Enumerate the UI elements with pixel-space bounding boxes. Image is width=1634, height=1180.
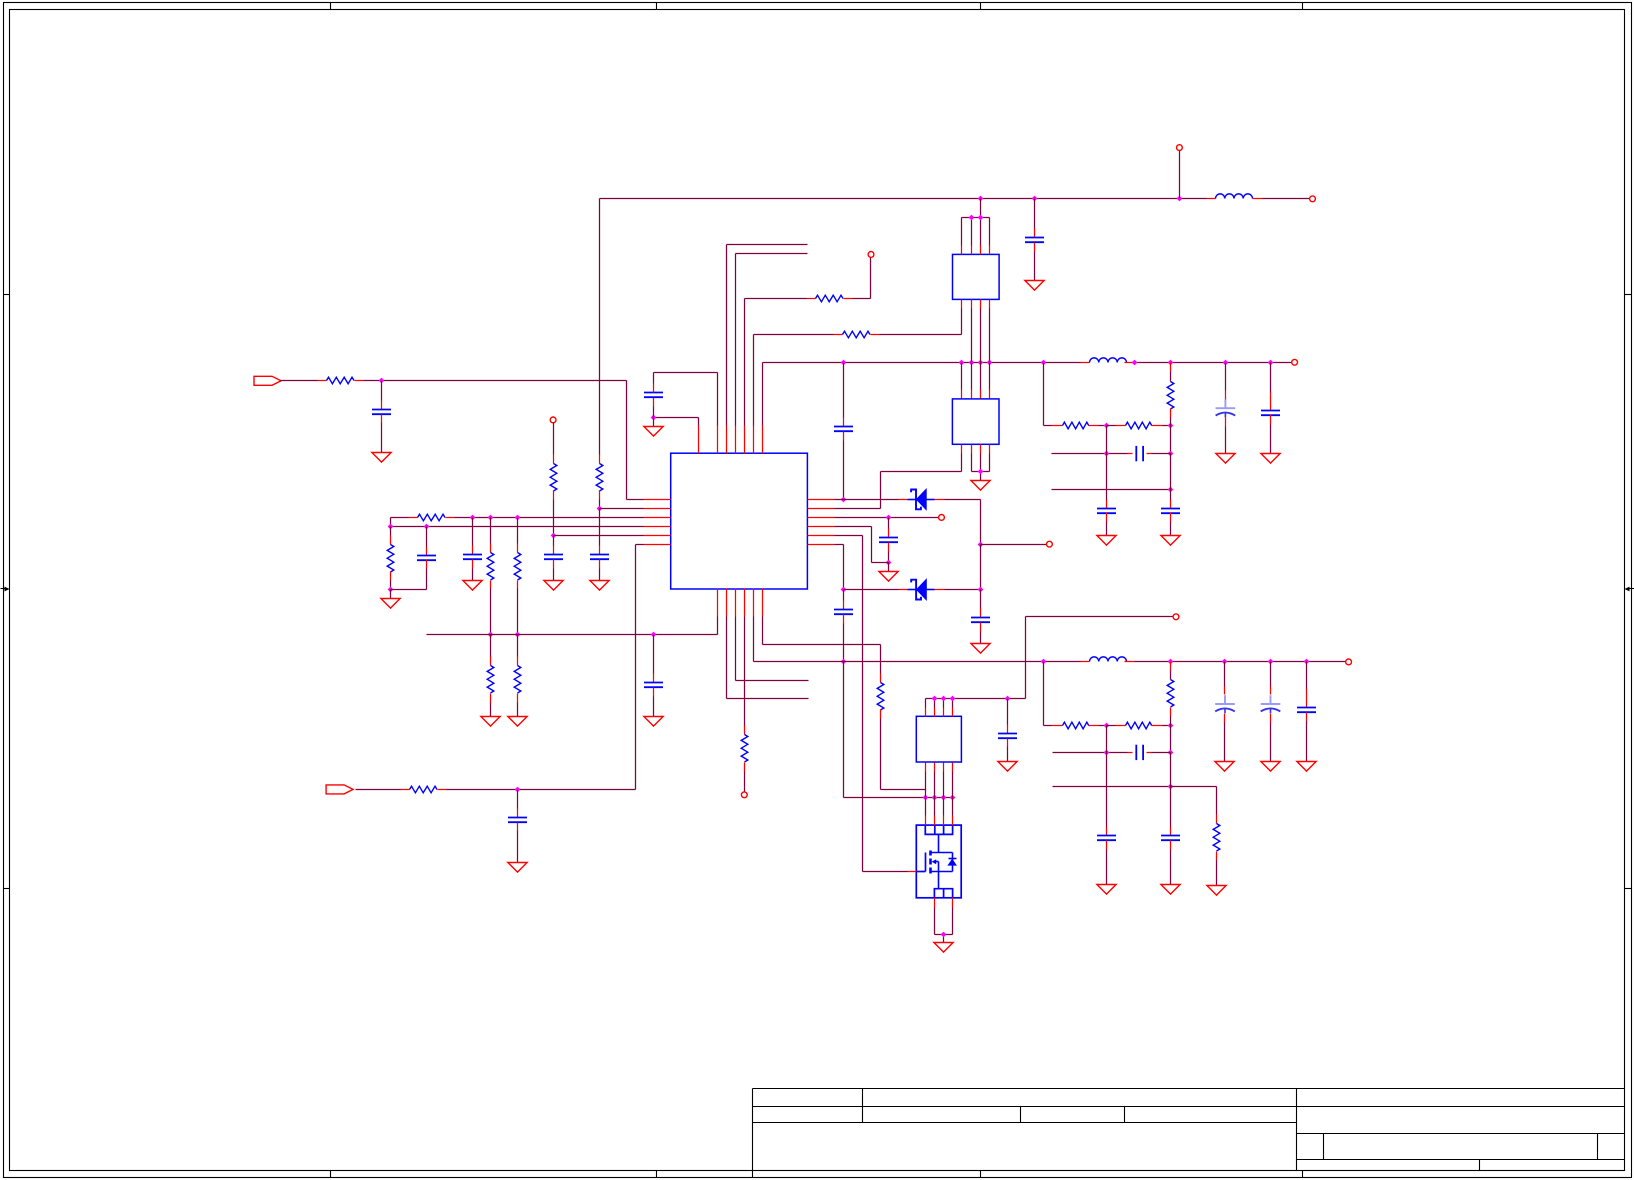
node rail1-C junction [1032,196,1038,202]
ground [508,863,527,873]
port (open circle) top [1177,145,1183,151]
node A junction [379,378,385,384]
ground [1207,886,1226,896]
wire rail362 down to C18 [1225,363,1227,391]
capacitor C4 [544,554,563,556]
wire lineB down to C6 [426,527,428,547]
node rail362 junction [841,360,847,366]
wire U3 pin b4 to Q1 [952,772,954,816]
title block [753,1088,1625,1090]
IC U2a [953,254,1000,299]
node lineA-C5 junction [470,515,476,521]
wire C11 to node G [888,543,890,552]
node rail362 junction [959,360,965,366]
port (open circle) F [939,515,945,521]
resistor R17a [1063,722,1089,729]
wire riser to IC row6 [635,545,637,790]
wire lineA to IC row3 [446,517,455,519]
capacitor C8 [508,817,527,819]
node U2b-gnd junction [978,469,984,475]
wire node A down to C1 [381,381,383,401]
ground [998,762,1017,772]
capacitor C14 [998,733,1017,735]
node U2a bus junction [969,215,975,221]
wire R19 to ground [1216,852,1218,861]
node bus662 junction [1168,659,1174,665]
node diode2-right junction [978,587,984,593]
wire bridge453 line [1052,453,1128,455]
node port-E junction [978,542,984,548]
wire L3 to port [1125,661,1135,663]
wire rail362 down to C19 [1270,363,1272,393]
wire C8 to ground [517,823,519,831]
wire bus662 down to R18 [1170,662,1172,671]
wire P1 to R1 [281,380,318,382]
wire C22 to ground [1170,841,1172,850]
node Q1 junction [941,795,947,801]
wire C21 to ground [1106,841,1108,850]
wire L2 to port [1125,362,1135,364]
capacitor C21 [1097,835,1116,837]
node bus-R6 junction [488,632,494,638]
wire lineA down to R7 [517,518,519,544]
node Q1 junction [923,795,929,801]
inductor L2 [1090,358,1127,363]
wire bus634 down to C7 [653,635,655,674]
resistor R17b [1126,722,1152,729]
wire node H down to C13 [843,590,845,601]
wire R6 to bus [490,581,492,589]
wire R5 to node C [390,572,392,581]
wire IC row6 to node H [835,544,844,546]
IC U1 pin stubs [644,499,671,501]
wire rail1 top stub [1179,151,1181,199]
transistor Q1 pin stubs [925,816,927,826]
capacitor C7 [644,682,663,684]
IC U3 [916,716,961,762]
ground [644,717,663,727]
ground [1216,454,1235,464]
wire C2 to ground [1034,243,1036,252]
IC U3 pin stubs [925,708,927,717]
resistor R4 [418,514,446,521]
wire row2-left to IC [600,508,644,510]
wire IC pin t4 stub line [735,254,737,426]
node R17 chain mid junction [1104,723,1110,729]
capacitor C1 [372,409,391,411]
resistor R15b [1126,422,1152,429]
node R15 chain mid junction [1104,423,1110,429]
node bus662 junction [1222,659,1228,665]
wire IC row1 to D1 [835,499,899,501]
node rail1-top junction [1177,196,1183,202]
wire bridge752 line [1053,752,1128,754]
ground [1097,885,1116,895]
wire R15 chain mid2 [1107,425,1116,427]
capacitor C5 [463,554,482,556]
node Q1 junction [950,795,956,801]
wire R15 chain right [1152,425,1163,427]
wire C7 to ground [653,688,655,697]
wire node A to IC row1 [626,381,628,500]
ground [934,943,953,953]
wire IC pin b2 stub line [726,617,728,699]
wire rail1 left leg down [599,199,601,455]
node row1-right junction [841,497,847,503]
wire R12 to U2a pin [871,334,880,336]
resistor R8 [487,666,494,694]
wire row3 down to C11 [888,518,890,529]
resistor R3 [550,464,557,492]
wire C3 to ground [599,560,601,569]
wire C16 to ground [1106,513,1108,522]
port (open circle) rail662 right [1346,659,1352,665]
ground [1161,536,1180,546]
node chain2-R18 junction [1168,723,1174,729]
capacitor C22 [1161,835,1180,837]
node lineA-R7 junction [515,515,521,521]
diode D1 (schottky) [899,499,908,501]
resistor R5 [387,545,394,573]
ground [1097,536,1116,546]
node rail362 junction [1132,360,1138,366]
resistor R10 [410,786,438,793]
capacitor C23 (polarized) [1224,695,1226,704]
ground [508,717,527,727]
ground [381,599,400,609]
resistor R16 [1167,382,1174,410]
port (open circle) rail1 right [1310,196,1316,202]
capacitor C19 [1261,410,1280,412]
wire lineB down to R5 [390,527,392,536]
wire H column to Q1 row [843,662,845,798]
node rail362 junction [1168,360,1174,366]
wire R10 to riser [438,789,447,791]
resistor R13 [741,735,748,763]
wire bridge752 cap stub right [1147,752,1152,754]
resistor R6 [487,553,494,581]
wire P2 to R10 [356,789,401,791]
wire R18 to chain2 [1170,708,1172,717]
wire IC pin b4 down [744,617,746,726]
IC U2b pin stubs [961,390,963,399]
capacitor C24 (polarized) [1270,695,1272,704]
wire rail362 down to C10 [843,363,845,418]
resistor R19 [1213,824,1220,852]
wire chain node down [1170,426,1172,454]
port P1 (input arrow) [254,376,281,385]
node C junction [388,587,394,593]
wire IC pin b3 stub line [735,617,737,681]
wire U2a top bus [980,199,982,218]
wire chain2 node down [1170,726,1172,753]
port P2 (input arrow) [326,785,353,794]
capacitor C2 [1025,237,1044,239]
wire U3 pin b1 to Q1 [881,789,926,791]
wire lineA corner down [390,518,392,527]
wire U2b pins to ground [971,454,973,472]
inductor L1 [1216,194,1253,199]
wire C25 to ground [1306,713,1308,722]
node G junction [886,560,892,566]
wire C18 to ground [1225,418,1227,427]
wire C4 to ground [553,560,555,569]
wire C9 to IC pin t2 [653,384,655,393]
node lineB-C6 junction [424,524,430,530]
node bridge752 junction [1168,750,1174,756]
node row3 junction [886,515,892,521]
inductor L3 [1090,657,1127,662]
wire C14 to ground [1007,739,1009,747]
resistor R14 [877,683,884,711]
node H junction [841,587,847,593]
IC U2a pin stubs [961,246,963,255]
port (open circle) E [1047,541,1053,547]
wire node down to C12 [980,590,982,609]
wire IC row5 to Q1 gate [835,535,863,537]
node P2-C8 junction [515,787,521,793]
diode D2 (schottky) [899,589,908,591]
port (open circle) node D [868,252,874,258]
wire bus down to R9 [517,635,519,657]
wire node to ground [653,418,655,427]
wire bus662 down to C23 [1224,662,1226,687]
wire lineA down to C5 [472,518,474,546]
wire node to port E [981,544,1047,546]
wire C17 to ground [1170,513,1172,522]
wire C24 to ground [1270,714,1272,723]
capacitor C11 [879,537,898,539]
wire bridge453 cap stub right [1147,453,1152,455]
capacitor C16 [1097,508,1116,510]
port (open circle) rail362 right [1292,359,1298,365]
node line787 junction [1168,784,1174,790]
wire bus662 down to C25 [1306,662,1308,690]
node bus634-C7 junction [651,632,657,638]
wire line787 [1053,786,1171,788]
node U3 line junction [1005,696,1011,702]
node rail362 junction [978,360,984,366]
capacitor C9 [644,392,663,394]
wire node up to C9 [653,407,655,418]
node t1 junction [651,415,657,421]
wire R11 to circle [844,298,853,300]
wire lineA down to R6 [490,518,492,544]
ground [971,481,990,491]
wire R9 to ground [517,694,519,703]
wire C1 to ground [381,415,383,423]
ground [590,581,609,591]
node Q1 source junction [941,932,947,938]
node rail362 junction [1041,360,1047,366]
wire rail1 down to C2 [1034,199,1036,229]
wire C19 to ground [1270,415,1272,425]
wire IC pin t6 up [753,335,755,426]
ground [971,644,990,654]
capacitor C20 (bridge) [1135,745,1137,760]
node row5-left junction [551,533,557,539]
wire R2 to row2 node [599,491,601,500]
node bridge752 mid junction [1104,750,1110,756]
wire IC pin t7 / rail362 [762,363,764,426]
wire U3 pin b2 to Q1 [934,772,936,816]
node bus662-H junction [841,659,847,665]
port (open circle) node B [550,417,556,423]
node U2a bus junction [978,215,984,221]
wire D1 to corner [945,499,981,501]
wire rail362 to U2b pins [961,363,963,390]
wire C10 to row1 node [843,432,845,441]
wire R1 to node A [355,380,364,382]
ground [1297,762,1316,772]
wire 1107 column2 down [1106,726,1108,753]
wire Q1 source to ground [934,908,936,935]
wire row5 node down to C4 [553,536,555,546]
node rail362 junction [987,360,993,366]
capacitor C3 [590,554,609,556]
resistor R12 [843,331,871,338]
wire lineA left segment [391,517,409,519]
wire L1 to port [1253,198,1263,200]
wire IC row3 to port F [835,517,939,519]
wire rail362 down to R16 [1170,363,1172,372]
node U3 line junction [941,696,947,702]
node bridge453 junction [1168,451,1174,457]
capacitor C13 [834,609,853,611]
wire lineB [391,526,644,528]
ground [544,581,563,591]
wire rail1 [600,198,1207,200]
wire node G to ground [888,563,890,572]
resistor R9 [514,666,521,694]
wire bus662 down to C24 [1270,662,1272,687]
node Q1 junction [932,795,938,801]
node row2-left junction [597,506,603,512]
resistor R1 [327,377,355,384]
node rail362 junction [1223,360,1229,366]
capacitor C25 [1297,707,1316,709]
ground [644,427,663,437]
ground [1261,762,1280,772]
node U3 line junction [932,696,938,702]
wire bridge752 cap stub left [1128,752,1133,754]
ground [879,572,898,582]
ground [481,717,500,727]
wire U3 line down to C14 [1007,699,1009,725]
wire R7 to bus [517,581,519,589]
wire R17 chain right [1152,725,1163,727]
node bus-R7 junction [515,632,521,638]
capacitor C12 [971,617,990,619]
ground [1261,454,1280,464]
wire circle to R3 [553,423,555,455]
wire R14 down [880,710,882,719]
wire R8 to ground [490,694,492,703]
capacitor C10 [834,426,853,428]
wire IC pin t3 stub line [726,245,728,426]
transistor Q1 (power MOSFET package) [916,825,961,898]
ground [1025,281,1044,291]
wire IC row4 to node G [835,526,872,528]
wire bus down to R8 [490,635,492,657]
wire IC row2 to U2b pin1 [835,508,881,510]
resistor R2 [596,464,603,492]
wire node down to diode2 line [980,545,982,590]
wire bridge453 cap stub left [1128,453,1133,455]
resistor R7 [514,553,521,581]
capacitor C6 [417,555,436,557]
wire R13 to circle [744,763,746,772]
ground [372,453,391,463]
wire U3 pin b3 to Q1 [943,772,945,816]
resistor R18 [1167,680,1174,708]
capacitor C18 (polarized) [1224,399,1226,408]
node rail362 junction [969,360,975,366]
capacitor C15 (bridge) [1135,446,1137,461]
IC U2b [952,399,999,444]
wire R17 chain mid2 [1107,725,1116,727]
ground [1161,885,1180,895]
wire C13 to bus662 [843,615,845,624]
wire node H to D2 [844,589,899,591]
node lineA-R6 junction [488,515,494,521]
wire node down to C8 [517,790,519,809]
wire R15 chain mid [1089,425,1099,427]
wire node C to ground [390,590,392,599]
port (open circle) J [1173,614,1179,620]
node U3 line junction [950,696,956,702]
wire IC pin t5 up [744,299,746,426]
wire IC pin t1 to ground node [698,418,700,426]
wire row2 node down to C3 [599,509,601,546]
wire R3 to row5 node [553,491,555,500]
node bus662 junction [1268,659,1274,665]
wire C6 to node C [426,560,428,569]
wire 1170 column down [1170,454,1172,490]
wire R15 chain left [1043,363,1045,426]
wire 1107 column down [1106,426,1108,454]
node rail1-U2a junction [978,196,984,202]
node bus662 junction [1304,659,1310,665]
wire U2a pins to rail362 [971,309,973,363]
wire 1170 column2 down [1170,753,1172,787]
ground [463,581,482,591]
port (open circle) I [741,792,747,798]
node bus662 junction [1041,659,1047,665]
wire R16 to chain [1170,409,1172,418]
IC U1 [671,453,808,589]
wire D2 to node [945,589,981,591]
resistor R15a [1063,422,1089,429]
wire R17 chain left [1043,662,1045,726]
wire R17 chain mid [1089,725,1099,727]
node lineB-left junction [388,524,394,530]
wire C23 to ground [1224,714,1226,723]
node rail362 junction [1268,360,1274,366]
wire bus634 [427,634,718,636]
wire IC pin b6 net [762,617,764,645]
wire U3 top line [926,698,1026,700]
wire C5 to ground [472,560,474,569]
capacitor C17 [1161,508,1180,510]
node line489 junction [1168,487,1174,493]
node chain-R16 junction [1168,423,1174,429]
wire line787 to R19 [1171,786,1217,788]
node bridge453 mid junction [1104,451,1110,457]
resistor R11 [816,295,844,302]
wire C12 to ground [980,623,982,632]
wire bus662 [753,617,755,662]
